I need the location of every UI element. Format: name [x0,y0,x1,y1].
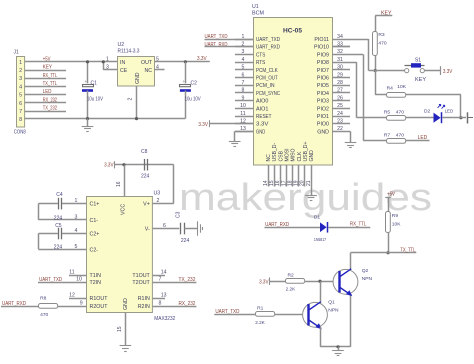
svg-text:GND: GND [309,150,315,162]
svg-text:R1: R1 [257,305,264,311]
svg-text:GND: GND [135,72,141,84]
svg-text:HC-05: HC-05 [283,27,302,34]
svg-text:MISO: MISO [291,148,297,161]
svg-text:V-: V- [145,227,150,233]
svg-text:PIO8: PIO8 [317,60,329,66]
svg-text:224: 224 [54,244,63,250]
svg-text:15: 15 [269,180,275,186]
svg-text:U1: U1 [252,4,259,10]
svg-text:PIO9: PIO9 [317,52,329,58]
svg-text:13: 13 [161,293,167,299]
svg-text:5: 5 [19,93,22,99]
svg-text:OUT: OUT [141,60,153,66]
svg-text:Q2: Q2 [362,268,369,274]
svg-text:CON8: CON8 [14,130,26,136]
svg-text:3.3V: 3.3V [443,69,453,75]
svg-text:T1OUT: T1OUT [132,273,150,279]
svg-text:NPN: NPN [362,276,373,282]
svg-text:4: 4 [75,228,78,234]
svg-text:LED: LED [43,89,52,95]
svg-text:PIO7: PIO7 [317,68,329,74]
svg-text:C2: C2 [191,81,198,87]
svg-text:PIO5: PIO5 [317,83,329,89]
svg-text:D1: D1 [314,214,321,220]
svg-text:T2OUT: T2OUT [132,280,150,286]
svg-text:2: 2 [128,98,134,101]
svg-text:R2IN: R2IN [138,304,150,310]
svg-text:3: 3 [106,64,109,70]
svg-text:RESET: RESET [256,114,272,120]
svg-text:RX_TTL: RX_TTL [43,73,57,79]
svg-text:USB_D-: USB_D- [272,143,278,162]
svg-text:UART_TXD: UART_TXD [256,37,280,43]
svg-text:R4: R4 [387,86,394,92]
svg-text:TX_TTL: TX_TTL [43,81,57,87]
svg-text:LED: LED [418,135,428,141]
svg-text:AIO1: AIO1 [256,106,268,112]
svg-text:LED: LED [445,108,454,114]
svg-text:GND: GND [123,298,129,310]
svg-text:R1IN: R1IN [138,296,150,302]
svg-text:NC: NC [145,68,153,74]
svg-text:MAX3232: MAX3232 [154,316,175,322]
svg-text:4: 4 [19,84,22,90]
svg-text:T2IN: T2IN [90,280,102,286]
svg-text:21: 21 [306,180,312,186]
svg-text:AIO0: AIO0 [256,99,268,105]
svg-text:CE: CE [120,68,128,74]
svg-text:RX_TTL: RX_TTL [350,222,366,228]
svg-text:R1OUT: R1OUT [90,296,109,302]
svg-text:PIO6: PIO6 [317,76,329,82]
svg-text:C2-: C2- [90,247,99,253]
svg-text:R3: R3 [378,32,385,38]
svg-text:C1+: C1+ [90,202,100,208]
svg-text:KEY: KEY [43,65,52,71]
svg-text:16: 16 [116,181,122,187]
svg-text:PCM_SYNC: PCM_SYNC [256,91,280,97]
svg-text:10K: 10K [392,221,401,227]
svg-text:C5: C5 [55,223,62,229]
svg-text:PIO3: PIO3 [317,99,329,105]
svg-text:C1-: C1- [90,218,99,224]
svg-text:D2: D2 [424,108,431,114]
svg-text:TX_232: TX_232 [43,106,57,112]
svg-text:C3: C3 [176,211,182,218]
svg-text:3.3V: 3.3V [197,56,207,62]
svg-text:J1: J1 [14,50,20,56]
svg-text:PCM_OUT: PCM_OUT [256,76,278,82]
svg-text:BCM: BCM [252,11,264,17]
svg-text:19: 19 [294,180,300,186]
svg-text:TX_TTL: TX_TTL [400,247,415,253]
svg-text:PIO10: PIO10 [314,45,329,51]
svg-text:UART_RXD: UART_RXD [256,45,280,51]
svg-text:RTS: RTS [256,60,266,66]
svg-text:224: 224 [181,238,190,244]
svg-text:10K: 10K [397,84,406,90]
svg-text:470: 470 [396,109,404,115]
svg-text:2.2K: 2.2K [255,320,265,326]
svg-text:1: 1 [19,60,22,66]
svg-text:CLK: CLK [297,151,303,162]
svg-text:3: 3 [75,215,78,221]
svg-text:RX_232: RX_232 [43,97,57,103]
svg-text:+: + [182,79,185,84]
svg-text:R2: R2 [288,272,295,278]
svg-text:PIO4: PIO4 [317,91,329,97]
svg-text:11: 11 [69,270,74,276]
svg-text:1: 1 [75,198,78,204]
svg-text:14: 14 [161,270,167,276]
svg-text:V+: V+ [143,202,150,208]
svg-text:18: 18 [287,180,293,186]
svg-text:PIO0: PIO0 [317,122,329,128]
svg-text:12: 12 [69,293,75,299]
svg-text:TX_232: TX_232 [179,277,196,283]
svg-text:5: 5 [75,244,78,250]
svg-text:CSB: CSB [278,150,284,161]
svg-text:MOSI: MOSI [284,148,290,161]
svg-text:R7: R7 [384,132,391,138]
svg-text:9: 9 [80,301,83,307]
svg-text:8: 8 [19,117,22,123]
svg-text:NPN: NPN [328,307,339,313]
svg-text:224: 224 [54,215,63,221]
svg-text:16: 16 [275,180,281,186]
svg-text:PIO1: PIO1 [317,114,329,120]
svg-text:U2: U2 [118,42,125,48]
svg-text:10u 10V: 10u 10V [185,97,201,103]
svg-text:R2OUT: R2OUT [90,304,109,310]
svg-text:PIO2: PIO2 [317,106,329,112]
svg-text:PCM_CLK: PCM_CLK [256,68,278,74]
svg-text:3.3V: 3.3V [198,122,208,128]
svg-text:VCC: VCC [121,204,127,215]
svg-text:S1: S1 [415,58,421,64]
svg-text:17: 17 [281,180,287,186]
svg-text:NC: NC [266,154,272,162]
svg-text:470: 470 [396,132,404,138]
svg-text:1N5817: 1N5817 [314,237,326,243]
svg-text:IN: IN [120,60,125,66]
svg-text:7: 7 [159,277,162,283]
svg-text:224: 224 [141,173,150,179]
svg-text:GND: GND [256,129,265,135]
svg-text:20: 20 [300,180,306,186]
svg-text:10u 10V: 10u 10V [87,97,103,103]
svg-text:C1: C1 [91,81,98,87]
svg-text:USB_D+: USB_D+ [303,142,309,162]
svg-text:8: 8 [159,301,162,307]
svg-text:3.3V: 3.3V [104,163,114,169]
svg-text:R9: R9 [392,213,399,219]
svg-text:+: + [85,79,88,84]
svg-text:C4: C4 [56,192,63,198]
svg-text:R8: R8 [40,296,47,302]
svg-text:2: 2 [19,68,22,74]
svg-text:GND: GND [317,129,329,135]
svg-text:T1IN: T1IN [90,273,102,279]
svg-text:C8: C8 [141,149,148,155]
svg-text:Q1: Q1 [328,299,335,305]
svg-text:C2+: C2+ [90,232,100,238]
svg-text:6: 6 [163,223,166,229]
svg-text:470: 470 [40,312,48,318]
svg-text:+5V: +5V [387,191,395,197]
svg-text:3.3V: 3.3V [256,122,269,128]
svg-text:RX_232: RX_232 [179,301,196,307]
svg-text:3: 3 [19,76,22,82]
svg-text:PCM_IN: PCM_IN [256,83,275,89]
svg-text:10: 10 [76,277,82,283]
svg-text:CTS: CTS [256,52,266,58]
svg-text:KEY: KEY [415,77,427,83]
svg-text:2: 2 [157,198,160,204]
svg-text:U3: U3 [154,191,161,197]
svg-text:6: 6 [19,101,22,107]
svg-text:2.2K: 2.2K [286,286,296,292]
svg-text:R1114-3.3: R1114-3.3 [118,49,140,55]
svg-text:1: 1 [106,56,109,62]
svg-text:PIO11: PIO11 [314,37,329,43]
svg-text:7: 7 [19,109,22,115]
svg-text:15: 15 [117,326,123,332]
svg-text:14: 14 [263,180,269,186]
svg-text:470: 470 [378,40,386,46]
svg-text:R5: R5 [384,109,391,115]
svg-text:3.3V: 3.3V [259,279,269,285]
